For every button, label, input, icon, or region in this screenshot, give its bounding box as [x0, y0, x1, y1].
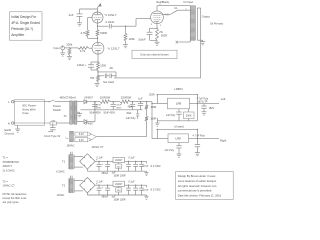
wire thermistor to T1: [57, 122, 70, 124]
svg-text:6.3 VDC: 6.3 VDC: [151, 188, 161, 192]
svg-text:except the filter ones: except the filter ones: [3, 196, 28, 200]
label 14VAC winding: [57, 194, 65, 197]
pentode V3 grid lead: [150, 18, 152, 20]
pentode V3 envelope: [151, 11, 164, 24]
wire LR8-1 output: [190, 103, 220, 104]
svg-text:100uF: 100uF: [138, 38, 146, 42]
wire OPT secondary bottom tap: [197, 40, 202, 41]
note box only one channel: [132, 50, 177, 58]
regulator HA LM317: [113, 157, 125, 162]
capacitor C4 not used: [103, 74, 114, 85]
wire LR8-1 bypass top: [157, 94, 198, 103]
wire chevron merge a: [92, 134, 97, 136]
pentode V3 grids: [153, 16, 161, 20]
wire to C3: [91, 62, 98, 65]
label T1: [63, 114, 67, 118]
svg-text:XPWR080720: XPWR080720: [3, 160, 20, 164]
svg-text:100R 100R: 100R 100R: [113, 198, 125, 201]
label filter cap values: [90, 113, 116, 115]
wire HA ac bottom: [74, 166, 83, 168]
capacitor HA 0.1uF out: [126, 157, 135, 172]
ground OPT secondary: [200, 42, 205, 45]
svg-text:180V: 180V: [209, 107, 215, 110]
svg-text:250V: 250V: [149, 93, 155, 97]
capacitor C7 filter: [92, 101, 101, 110]
svg-text:47uF: 47uF: [96, 104, 102, 106]
wire LR8-2 output: [189, 138, 220, 139]
resistor R9 220R 5W: [100, 97, 111, 104]
ground R4: [123, 45, 128, 48]
svg-text:½ 12SL7: ½ 12SL7: [105, 13, 117, 17]
svg-text:Input: Input: [53, 46, 59, 50]
wire rail seg1: [95, 101, 100, 103]
capacitor C8 filter: [111, 102, 122, 110]
ground HA minus: [145, 171, 149, 175]
svg-text:0.22uF: 0.22uF: [106, 20, 115, 24]
wire V2 cathode down: [97, 54, 98, 63]
ground C15: [177, 154, 182, 157]
svg-text:1uF Poly: 1uF Poly: [166, 114, 176, 117]
svg-text:Left: Left: [221, 97, 226, 101]
wire HB reg out: [125, 185, 147, 186]
triode V1 envelope: [92, 12, 103, 23]
svg-text:14VAC CT: 14VAC CT: [3, 184, 16, 188]
svg-text:LM317: LM317: [115, 159, 123, 162]
wire HA ac top: [74, 156, 83, 158]
label 250V: [149, 93, 155, 97]
node B+ driver supply arrow: [98, 3, 102, 12]
svg-text:All rights reserved; however n: All rights reserved; however non-: [178, 184, 217, 188]
svg-text:Right: Right: [220, 139, 227, 143]
wire OPT secondary top tap: [197, 7, 200, 9]
wire T1 top tap: [77, 101, 84, 103]
svg-text:Pentode (UL?): Pentode (UL?): [11, 27, 33, 31]
ground V2 cathode: [95, 83, 100, 86]
svg-text:1uF: 1uF: [138, 97, 143, 100]
terminal box 6.3V b: [75, 138, 92, 142]
wire filter ground rail: [81, 109, 143, 111]
label 480VCT: [60, 96, 77, 99]
svg-text:50uF 450V 50uF 450V: 50uF 450V 50uF 450V: [90, 113, 116, 115]
capacitor C3 140uF: [77, 63, 98, 70]
wire cathode bottom join: [150, 40, 158, 42]
transformer T1 core: [72, 101, 75, 124]
svg-text:Ground: Ground: [5, 131, 15, 135]
capacitor C2 0.22uF: [106, 20, 115, 28]
label HB 6.3 VDC: [146, 188, 161, 192]
wire R2 to V2 plate node: [88, 37, 99, 40]
capacitor C13 1uF poly: [166, 109, 182, 121]
svg-text:1uF Poly: 1uF Poly: [164, 149, 174, 152]
svg-text:10R: 10R: [51, 120, 55, 122]
wire grid node to V3 grid: [126, 19, 151, 27]
svg-text:UF4007: UF4007: [85, 122, 95, 125]
label 14VAC CT: [91, 145, 104, 149]
label 45uF b: [126, 113, 132, 115]
wire HB ac bottom: [74, 190, 83, 192]
svg-text:0.1uF: 0.1uF: [97, 157, 104, 160]
regulator U2 LR8: [168, 134, 189, 143]
svg-text:450V: 450V: [116, 107, 122, 109]
svg-text:6.3V: 6.3V: [79, 133, 84, 136]
wire HB dc rail: [95, 185, 113, 186]
triode V1 plate: [94, 12, 101, 15]
wire to C5: [150, 28, 158, 32]
svg-text:T1: T1: [63, 114, 67, 118]
svg-text:4.7 uF Poly: 4.7 uF Poly: [193, 134, 206, 137]
svg-text:Switch: Switch: [53, 108, 62, 112]
svg-text:100R 100R: 100R 100R: [113, 175, 125, 178]
svg-text:500R: 500R: [100, 31, 107, 35]
label Output: [202, 15, 210, 19]
svg-text:480VCT/85mA: 480VCT/85mA: [60, 96, 77, 99]
svg-text:100k: 100k: [129, 37, 136, 41]
wire HB ac top: [74, 179, 83, 181]
label 18VAC: [66, 144, 74, 148]
svg-text:+B To TP: +B To TP: [198, 101, 208, 104]
design credit box: [176, 172, 234, 200]
ground earth: [15, 129, 20, 132]
capacitor C15 1uF poly: [164, 143, 181, 154]
capacitor C11: [136, 110, 139, 119]
capacitor C12 4.7uF: [201, 103, 206, 111]
svg-text:100R: 100R: [150, 106, 156, 109]
wire heater winding mark: [65, 138, 68, 139]
resistor R5 4.7k: [78, 47, 89, 54]
svg-text:Initial Design For: Initial Design For: [11, 15, 37, 19]
svg-text:680uF: 680uF: [102, 173, 109, 175]
svg-text:220R/5W: 220R/5W: [121, 97, 132, 100]
wire HB output: [146, 185, 148, 187]
svg-text:680uF: 680uF: [102, 197, 109, 199]
transformer T1 primary: [70, 101, 73, 124]
ground jack sleeve: [60, 50, 65, 56]
capacitor C5 100uF: [138, 32, 152, 41]
wire OPT primary bottom not used: [179, 40, 191, 42]
resistor R6 1500: [97, 62, 114, 70]
svg-text:220R/5W: 220R/5W: [100, 97, 111, 100]
label HB 1uF: [112, 196, 117, 198]
wire cathode node down: [97, 70, 98, 77]
wire LR8-2 input: [152, 138, 168, 140]
wire HA minus rail: [87, 169, 146, 171]
svg-text:5k Primary: 5k Primary: [210, 22, 223, 26]
label 180V: [209, 107, 215, 110]
svg-text:140uF +: 140uF +: [77, 63, 87, 67]
svg-text:NOTE: All capacitors: NOTE: All capacitors: [3, 192, 28, 196]
wire D2 join: [87, 102, 95, 122]
svg-text:Yel Used: Yel Used: [183, 1, 194, 4]
wire R12 end: [146, 121, 148, 137]
IEC power entry box: [15, 100, 45, 125]
svg-text:½ 12SL7: ½ 12SL7: [108, 46, 120, 50]
triode V2 cathode: [95, 51, 101, 55]
svg-text:0.1uF: 0.1uF: [128, 180, 135, 183]
label power switch: [53, 104, 62, 112]
triode V1 grid: [88, 17, 102, 19]
wire LR8-1 adj down: [196, 103, 198, 120]
label 6.3VAC winding: [56, 170, 65, 173]
wire LR8-1 ground rail: [155, 118, 197, 126]
label HB 100R 100R: [113, 198, 125, 201]
wire N line: [14, 122, 50, 124]
label T2: [62, 184, 66, 188]
wire cathode node right lower: [98, 75, 105, 77]
resistor R4 100k: [124, 33, 135, 41]
label HA 100R 100R: [113, 175, 125, 178]
label 4.7uF poly left: [197, 98, 209, 101]
resistor HA 240R: [116, 163, 122, 172]
svg-text:100k: 100k: [66, 42, 73, 46]
label UL: [174, 6, 178, 10]
input jack J1: [53, 46, 64, 50]
svg-text:LM317: LM317: [115, 183, 123, 186]
wire rail seg3: [130, 101, 152, 102]
capacitor HB 6800uF: [102, 185, 110, 198]
wire L line: [14, 101, 49, 103]
capacitor C14 4.7uF: [195, 139, 200, 153]
label red black: [157, 1, 170, 5]
resistor R12 100R: [145, 116, 156, 121]
svg-text:1uF Poly: 1uF Poly: [126, 117, 137, 120]
svg-text:LR8: LR8: [176, 137, 182, 141]
title text box: [10, 12, 43, 40]
label 4.7uF poly right: [193, 134, 206, 137]
svg-text:4P1L Single Ended: 4P1L Single Ended: [11, 21, 40, 25]
wire D1 out: [87, 101, 96, 102]
switch S1: [49, 100, 55, 102]
svg-text:14VAC: 14VAC: [57, 194, 65, 197]
label B to TP: [198, 101, 208, 104]
regulator HB LM317: [113, 181, 125, 186]
label V2 1/2 12SL7: [108, 46, 120, 50]
wire to R4: [125, 26, 127, 33]
svg-text:400VCT: 400VCT: [3, 164, 13, 168]
diode D1 UF4007: [84, 97, 94, 104]
label 45uF a: [128, 107, 134, 109]
resistor R2 4.7k: [81, 30, 89, 37]
wire switch to T1: [55, 101, 70, 103]
capacitor HA 6800uF: [102, 161, 110, 174]
wire B+ to C1: [80, 9, 98, 14]
label 1uF poly a: [126, 117, 137, 120]
triode V2 envelope: [92, 42, 104, 54]
wire R11 to R12: [146, 109, 148, 116]
wire R7 to ground: [97, 82, 99, 84]
wire V1 cathode down: [97, 23, 98, 30]
label yel used: [183, 1, 194, 10]
label HA 1uF: [112, 173, 117, 175]
capacitor HA out3: [139, 161, 149, 171]
triode V2 grid: [89, 47, 103, 49]
terminal N: [8, 121, 14, 125]
notes T1 T2 block: [3, 156, 28, 205]
svg-text:6.3VAC: 6.3VAC: [56, 170, 65, 173]
capacitor C9 filter: [130, 102, 135, 110]
wire T1 bottom tap: [77, 121, 84, 123]
transformer T1 heater winding: [70, 131, 74, 142]
terminal L: [8, 100, 14, 104]
wire T1 CT tap: [77, 112, 80, 113]
transformer T1 secondary: [74, 101, 77, 124]
svg-text:T1 =: T1 =: [3, 156, 9, 160]
resistor R3 500R: [96, 30, 107, 37]
capacitor C10 1uF: [138, 97, 143, 109]
capacitor HB out2: [133, 185, 138, 195]
svg-text:are poly types: are poly types: [3, 200, 20, 204]
svg-text:0.1uF: 0.1uF: [97, 180, 104, 183]
svg-text:750: 750: [90, 76, 95, 80]
svg-text:Only one channel shown: Only one channel shown: [140, 53, 169, 57]
svg-text:200K: 200K: [186, 115, 192, 118]
svg-text:0.1uF Type X2: 0.1uF Type X2: [44, 135, 61, 138]
svg-text:UF4007: UF4007: [84, 97, 94, 100]
label V1 1/2 12SL7: [105, 13, 117, 17]
ground V3 cathode: [155, 42, 160, 45]
wire jack to node: [65, 47, 71, 48]
svg-text:18VAC: 18VAC: [66, 144, 74, 148]
svg-text:→: →: [146, 164, 149, 168]
ground C14: [195, 153, 200, 156]
ground T1 CT: [77, 114, 82, 117]
transformer OPT primary: [190, 6, 195, 40]
label T1: [62, 160, 66, 164]
label LR8N3: [174, 87, 183, 91]
svg-text:6.2 VDC: 6.2 VDC: [151, 164, 161, 168]
wire HA output: [146, 161, 148, 163]
wire heater CT run: [97, 136, 147, 138]
svg-text:Not Used: Not Used: [103, 80, 114, 84]
capacitor C1 2uF: [69, 13, 83, 23]
transformer OPT secondary: [196, 8, 198, 40]
wire LR8-1 input: [152, 102, 168, 104]
wire C2 to grid node: [111, 26, 126, 27]
svg-text:T2: T2: [62, 184, 66, 188]
ground R1: [67, 56, 72, 59]
svg-text:Design By Bruce Heran. It uses: Design By Bruce Heran. It uses: [178, 174, 216, 178]
transformer T2 winding: [68, 176, 74, 193]
svg-text:47uF: 47uF: [116, 104, 122, 106]
svg-text:2x 6.3VAC: 2x 6.3VAC: [3, 168, 15, 172]
pentode V3 cathode: [154, 21, 160, 24]
diode D2 UF4007: [84, 120, 94, 126]
resistor R13 200K box: [184, 109, 195, 121]
triode V1 cathode: [95, 20, 101, 23]
resistor R1 100k: [66, 42, 73, 56]
svg-text:2uF: 2uF: [69, 13, 74, 17]
bridge rectifier HA: [80, 154, 98, 169]
svg-text:0.1uF: 0.1uF: [128, 157, 135, 160]
svg-text:T2 =: T2 =: [3, 179, 9, 183]
svg-text:4.7k: 4.7k: [80, 49, 86, 53]
capacitor HB out3: [139, 185, 149, 195]
svg-text:UL: UL: [174, 6, 178, 10]
ground HB minus: [145, 195, 149, 199]
capacitor HA 0.1uF in: [97, 157, 104, 172]
transformer T1 winding: [68, 152, 74, 169]
svg-text:Output: Output: [202, 15, 210, 19]
svg-text:LR8: LR8: [176, 102, 182, 106]
svg-text:Red(Black),: Red(Black),: [157, 1, 170, 4]
wire node Y to C2: [98, 25, 109, 27]
svg-text:500R: 500R: [161, 33, 167, 37]
svg-text:LR8N3: LR8N3: [174, 87, 183, 91]
svg-text:6.3V: 6.3V: [79, 139, 84, 142]
wire UL tap: [161, 10, 190, 14]
capacitor C6 X2: [44, 123, 61, 138]
svg-text:1500: 1500: [100, 63, 106, 67]
triode V2 plate: [95, 42, 102, 45]
svg-text:N: N: [8, 121, 10, 125]
svg-text:14VAC CT: 14VAC CT: [91, 145, 104, 149]
wire rail seg2: [110, 101, 120, 102]
svg-text:(if used): (if used): [174, 125, 184, 129]
resistor R8 500R: [156, 28, 168, 40]
regulator U1 LR8: [168, 98, 190, 109]
label HA 6.2 VDC: [146, 164, 161, 168]
pentode V3 plate: [153, 6, 161, 14]
wire HA reg out: [125, 161, 147, 162]
resistor R7 750: [90, 75, 100, 81]
wire R4 to ground: [125, 41, 127, 45]
svg-text:Fuse: Fuse: [23, 111, 30, 115]
wire cathode node right upper: [98, 72, 116, 78]
wire V3 plate to OPT: [157, 5, 190, 7]
wire R3 to V2: [97, 36, 99, 42]
capacitor HB 0.1uF out: [126, 180, 135, 195]
resistor R11 100R: [145, 105, 156, 110]
label if used: [174, 125, 184, 129]
resistor R10 220R 5W: [120, 97, 132, 104]
wire HA dc rail: [95, 161, 113, 162]
bridge rectifier HB: [80, 178, 98, 193]
wire bus down x146.5: [146, 102, 148, 105]
label earth ground: [5, 128, 15, 136]
label 5k Primary: [210, 22, 223, 26]
wire earth: [17, 125, 19, 129]
svg-text:Date this version: February 11: Date this version: February 11, 2016: [178, 193, 222, 197]
terminal box 6.3V a: [75, 132, 92, 136]
wire HB minus rail: [87, 193, 146, 195]
wire bus to LR8 inputs: [151, 102, 152, 139]
svg-text:4.7k: 4.7k: [81, 31, 87, 35]
ground C12: [202, 112, 207, 115]
svg-text:45uF: 45uF: [126, 113, 132, 115]
svg-text:450V: 450V: [96, 107, 102, 109]
wire feedback run: [114, 8, 201, 78]
label Left: [221, 97, 226, 101]
wire V1 grid to R2: [87, 18, 89, 30]
label Right: [220, 139, 227, 143]
wire C4 to feedback: [111, 75, 116, 77]
svg-text:100R: 100R: [150, 118, 156, 121]
capacitor HA out2: [133, 161, 138, 171]
svg-text:some features of earlier desig: some features of earlier designs.: [178, 179, 217, 183]
svg-text:Amplifier: Amplifier: [11, 33, 25, 37]
ground C1: [77, 23, 82, 26]
svg-text:commercial use is permitted.: commercial use is permitted.: [178, 189, 212, 193]
svg-text:→: →: [146, 188, 149, 192]
wire node to R5: [70, 47, 79, 49]
svg-text:45uF: 45uF: [128, 107, 134, 109]
capacitor HB 0.1uF in: [97, 180, 104, 195]
resistor HB 240R: [116, 187, 122, 196]
thermistor box: [50, 120, 57, 125]
wire LR8-2 bypass top: [157, 129, 198, 139]
wire V3 cathode down: [156, 24, 157, 29]
pin labels V3: [151, 14, 169, 27]
wire chevron merge b: [92, 137, 97, 140]
